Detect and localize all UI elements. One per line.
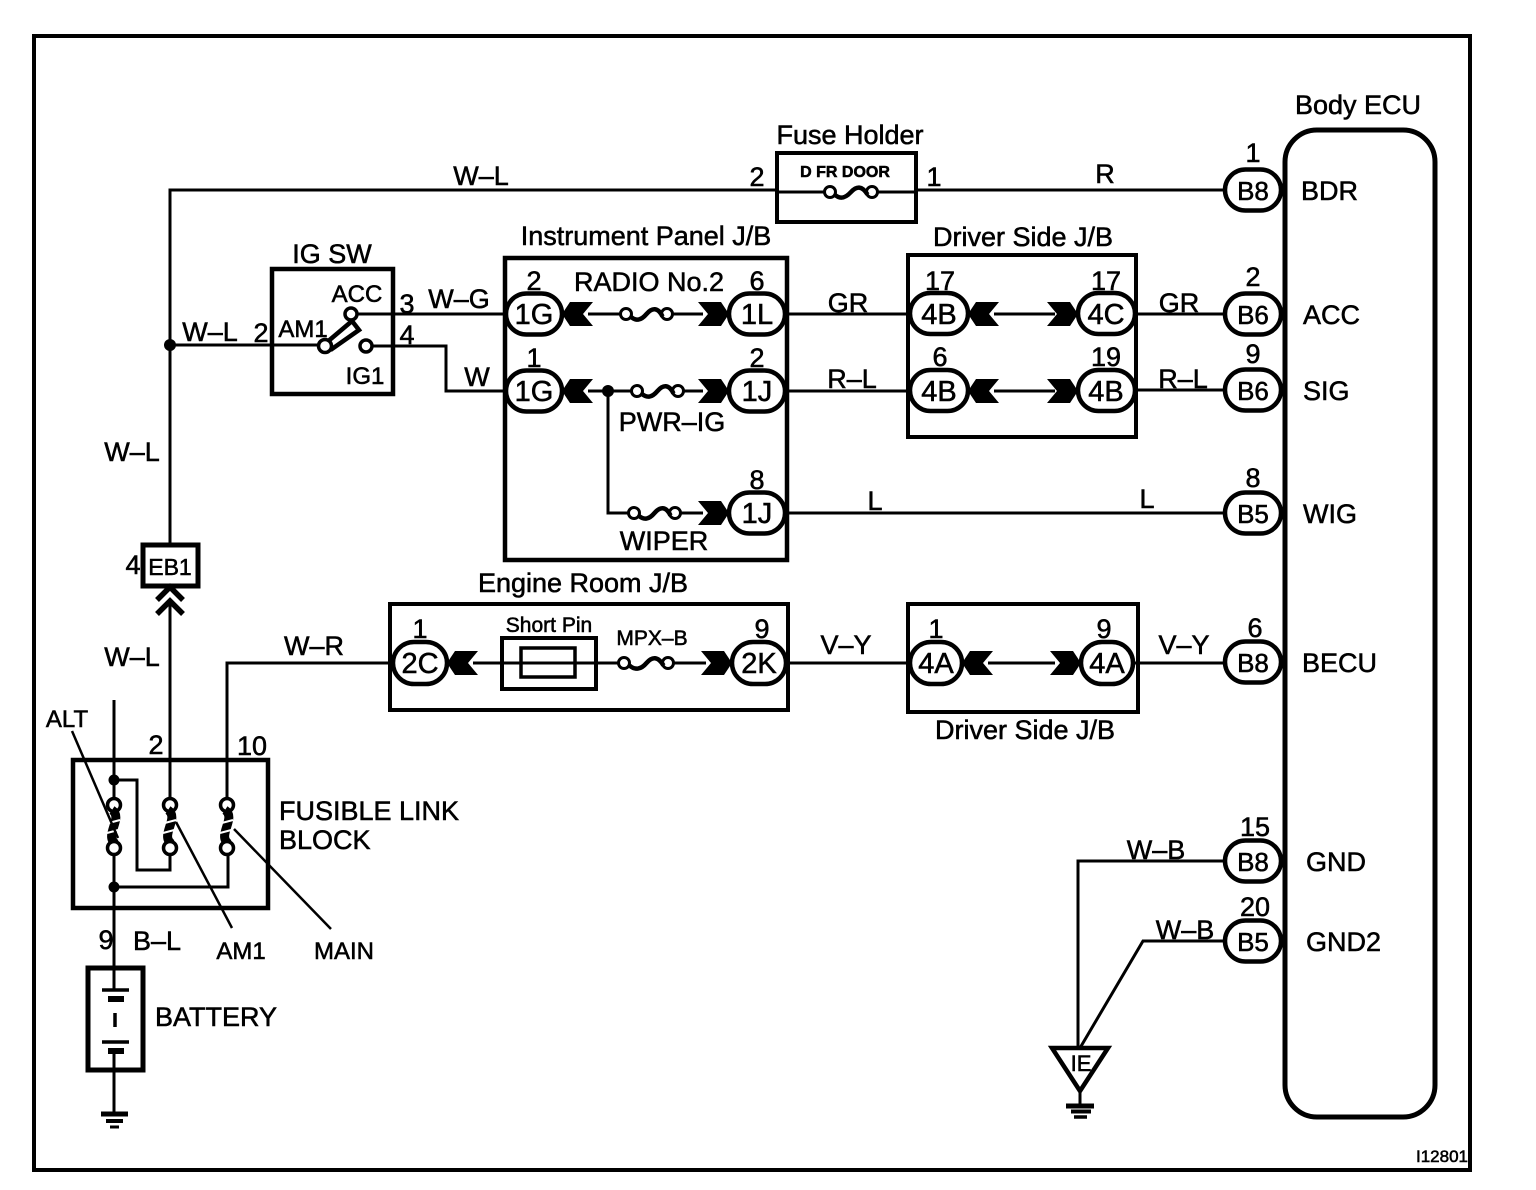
connector B8 pin 6 BECU [1225, 613, 1377, 683]
svg-text:2: 2 [749, 343, 764, 373]
svg-text:2: 2 [148, 730, 163, 760]
connector 4A pin 1 [910, 614, 962, 684]
connector 1J pin 8 [729, 465, 785, 534]
svg-text:17: 17 [925, 266, 955, 296]
wire W-L EB1 to fusible link AM1 [104, 605, 170, 800]
svg-text:4C: 4C [1087, 299, 1124, 331]
svg-text:10: 10 [237, 731, 267, 761]
connector 2K pin 9 [732, 614, 786, 684]
svg-text:2: 2 [526, 266, 541, 296]
svg-text:W–R: W–R [284, 631, 344, 661]
svg-text:AM1: AM1 [278, 316, 327, 343]
svg-text:Driver Side J/B: Driver Side J/B [933, 222, 1113, 252]
svg-text:3: 3 [399, 289, 414, 319]
battery [88, 968, 277, 1070]
svg-text:Driver Side J/B: Driver Side J/B [935, 715, 1115, 745]
svg-text:W: W [464, 362, 490, 392]
svg-text:W–L: W–L [104, 437, 160, 467]
svg-text:I12801: I12801 [1416, 1147, 1468, 1166]
svg-text:WIPER: WIPER [620, 526, 709, 556]
connector 4B pin 19 [1078, 342, 1135, 411]
svg-text:B8: B8 [1237, 176, 1269, 206]
connector chevrons below EB1 [157, 587, 183, 614]
connector 1G pin 2 [506, 266, 562, 335]
svg-text:SIG: SIG [1303, 376, 1350, 406]
svg-text:BLOCK: BLOCK [279, 825, 371, 855]
connector 2C pin 1 [393, 614, 447, 684]
svg-text:MAIN: MAIN [314, 938, 374, 965]
svg-text:GND: GND [1306, 847, 1366, 877]
svg-text:9: 9 [1245, 339, 1260, 369]
wire W-R to fusible link MAIN [227, 631, 390, 800]
wire W pin4 IG1 to 1G [372, 320, 506, 392]
svg-text:17: 17 [1091, 266, 1121, 296]
svg-text:B8: B8 [1237, 847, 1269, 877]
connector EB1 [125, 545, 198, 586]
svg-text:BECU: BECU [1302, 648, 1377, 678]
connector 4B pin 6 [910, 342, 968, 411]
svg-text:9: 9 [98, 925, 113, 955]
wire W-B GND to IE [1078, 835, 1225, 1048]
wire GR 4C to B6 [1135, 288, 1225, 318]
fuse WIPER [620, 501, 729, 556]
svg-text:R–L: R–L [1158, 364, 1208, 394]
wire L 1J to B5 [785, 484, 1225, 516]
wire ALT feed [109, 700, 120, 800]
svg-text:Short Pin: Short Pin [506, 614, 592, 637]
svg-text:9: 9 [1096, 614, 1111, 644]
svg-text:4: 4 [399, 320, 414, 350]
svg-text:BDR: BDR [1301, 176, 1358, 206]
svg-text:4B: 4B [921, 299, 956, 331]
svg-text:Fuse Holder: Fuse Holder [776, 120, 923, 150]
svg-text:EB1: EB1 [148, 554, 191, 580]
svg-text:8: 8 [749, 465, 764, 495]
junction box Engine Room J/B [390, 568, 788, 710]
connector B8 pin 1 BDR [1225, 138, 1358, 211]
wire W-G pin3 ACC to 1G [357, 284, 506, 319]
svg-text:ACC: ACC [1303, 300, 1360, 330]
svg-text:2C: 2C [401, 648, 438, 680]
connector 1L pin 6 [729, 266, 785, 335]
svg-text:20: 20 [1240, 892, 1270, 922]
wire R-L 4B to B6 [1135, 364, 1225, 394]
fuse MPX-B [616, 627, 732, 675]
svg-text:B6: B6 [1237, 300, 1269, 330]
svg-text:ALT: ALT [46, 706, 89, 733]
svg-text:ACC: ACC [332, 281, 383, 308]
connector 1J pin 2 [729, 343, 785, 412]
fusible link AM1 [161, 799, 266, 966]
junction box Driver Side J/B bottom [908, 604, 1138, 745]
svg-text:2: 2 [253, 318, 268, 348]
short pin [447, 614, 620, 689]
svg-text:GND2: GND2 [1306, 927, 1381, 957]
svg-text:GR: GR [828, 288, 869, 318]
fuse holder D FR DOOR [776, 120, 923, 222]
connector B5 pin 20 GND2 [1225, 892, 1381, 962]
svg-text:GR: GR [1159, 288, 1200, 318]
connector B8 pin 15 GND [1225, 812, 1366, 882]
svg-text:15: 15 [1240, 812, 1270, 842]
svg-text:1: 1 [926, 162, 941, 192]
wire R-L 1J to 4B [785, 364, 916, 394]
svg-text:1: 1 [412, 614, 427, 644]
svg-text:6: 6 [749, 266, 764, 296]
connector 4C pin 17 [1078, 266, 1135, 334]
svg-text:W–G: W–G [428, 284, 490, 314]
svg-text:4B: 4B [921, 376, 956, 408]
svg-text:V–Y: V–Y [820, 630, 871, 660]
svg-text:L: L [867, 486, 882, 516]
svg-text:1L: 1L [741, 299, 773, 331]
connector 4A pin 9 [1081, 614, 1133, 684]
svg-text:9: 9 [754, 614, 769, 644]
svg-text:B5: B5 [1237, 499, 1269, 529]
svg-text:4A: 4A [918, 648, 954, 680]
svg-text:2K: 2K [741, 648, 777, 680]
wire W-L to EB1 [104, 345, 170, 545]
wire internal bottom bus [109, 854, 229, 893]
svg-text:B8: B8 [1237, 648, 1269, 678]
fuse PWR-IG [562, 379, 729, 437]
svg-text:2: 2 [1245, 262, 1260, 292]
svg-text:W–B: W–B [1156, 915, 1215, 945]
svg-text:1G: 1G [515, 299, 554, 331]
junction box Instrument Panel J/B [505, 221, 787, 560]
svg-text:4B: 4B [1088, 376, 1123, 408]
wire V-Y 4A to B8 [1133, 630, 1225, 663]
svg-text:Instrument Panel J/B: Instrument Panel J/B [521, 221, 772, 251]
wire W-B GND2 to IE [1080, 915, 1225, 1048]
svg-text:1: 1 [928, 614, 943, 644]
wire arrows 4A to 4A [962, 651, 1081, 675]
svg-text:RADIO No.2: RADIO No.2 [574, 267, 724, 297]
wire V-Y 2K to 4A [788, 630, 910, 663]
wire W-L to IG SW with junction [164, 317, 318, 351]
svg-text:8: 8 [1245, 463, 1260, 493]
wire internal step ALT to AM1 link [114, 780, 170, 870]
svg-text:L: L [1139, 484, 1154, 514]
connector B6 pin 2 ACC [1225, 262, 1360, 335]
svg-text:W–L: W–L [104, 642, 160, 672]
svg-text:Body ECU: Body ECU [1295, 90, 1421, 120]
svg-text:IG1: IG1 [346, 363, 385, 390]
junction box Driver Side J/B top [908, 222, 1136, 437]
svg-text:W–L: W–L [182, 317, 238, 347]
svg-text:1J: 1J [742, 376, 773, 408]
wire R to BDR [916, 159, 1225, 192]
wire GR 1L to 4B [785, 288, 916, 318]
svg-text:2: 2 [749, 162, 764, 192]
wire W-L top feed [170, 161, 777, 345]
connector B5 pin 8 WIG [1225, 463, 1357, 534]
svg-text:Engine Room J/B: Engine Room J/B [478, 568, 688, 598]
svg-text:6: 6 [1247, 613, 1262, 643]
svg-text:WIG: WIG [1303, 499, 1357, 529]
connector 1G pin 1 [506, 343, 562, 412]
wire arrows 4B to 4C [968, 302, 1078, 326]
ECU Body ECU [1285, 90, 1435, 1117]
fusible link ALT [46, 706, 122, 855]
svg-text:B6: B6 [1237, 376, 1269, 406]
svg-text:IG SW: IG SW [292, 239, 372, 269]
connector 4B pin 17 [910, 266, 968, 334]
svg-text:W–L: W–L [453, 161, 509, 191]
svg-text:BATTERY: BATTERY [155, 1002, 277, 1032]
wire arrows 4B to 4B [968, 379, 1078, 403]
fuse RADIO No.2 [562, 267, 729, 326]
svg-text:B–L: B–L [133, 926, 181, 956]
ground IE [1052, 1048, 1108, 1117]
svg-text:4A: 4A [1089, 648, 1125, 680]
wire B-L to battery [98, 887, 181, 968]
svg-text:R–L: R–L [827, 364, 877, 394]
svg-text:1G: 1G [515, 376, 554, 408]
switch IG SW [272, 239, 393, 394]
svg-text:D FR DOOR: D FR DOOR [800, 164, 890, 181]
svg-text:AM1: AM1 [216, 938, 265, 965]
svg-text:1J: 1J [742, 498, 773, 530]
svg-text:FUSIBLE LINK: FUSIBLE LINK [279, 796, 459, 826]
svg-text:1: 1 [526, 343, 541, 373]
svg-text:4: 4 [125, 550, 140, 580]
connector B6 pin 9 SIG [1225, 339, 1350, 411]
svg-text:V–Y: V–Y [1158, 630, 1209, 660]
svg-text:MPX–B: MPX–B [616, 627, 687, 650]
svg-text:IE: IE [1071, 1051, 1092, 1076]
svg-text:19: 19 [1091, 342, 1121, 372]
fusible link block [73, 730, 459, 908]
svg-text:W–B: W–B [1127, 835, 1186, 865]
svg-text:1: 1 [1245, 138, 1260, 168]
wire junction to WIPER fuse [608, 391, 629, 513]
fusible link MAIN [218, 799, 374, 966]
svg-text:B5: B5 [1237, 927, 1269, 957]
svg-text:6: 6 [932, 342, 947, 372]
ground battery [101, 1070, 128, 1127]
node junction PWR-IG/WIPER [602, 385, 614, 397]
svg-text:R: R [1095, 159, 1115, 189]
svg-text:PWR–IG: PWR–IG [619, 407, 726, 437]
